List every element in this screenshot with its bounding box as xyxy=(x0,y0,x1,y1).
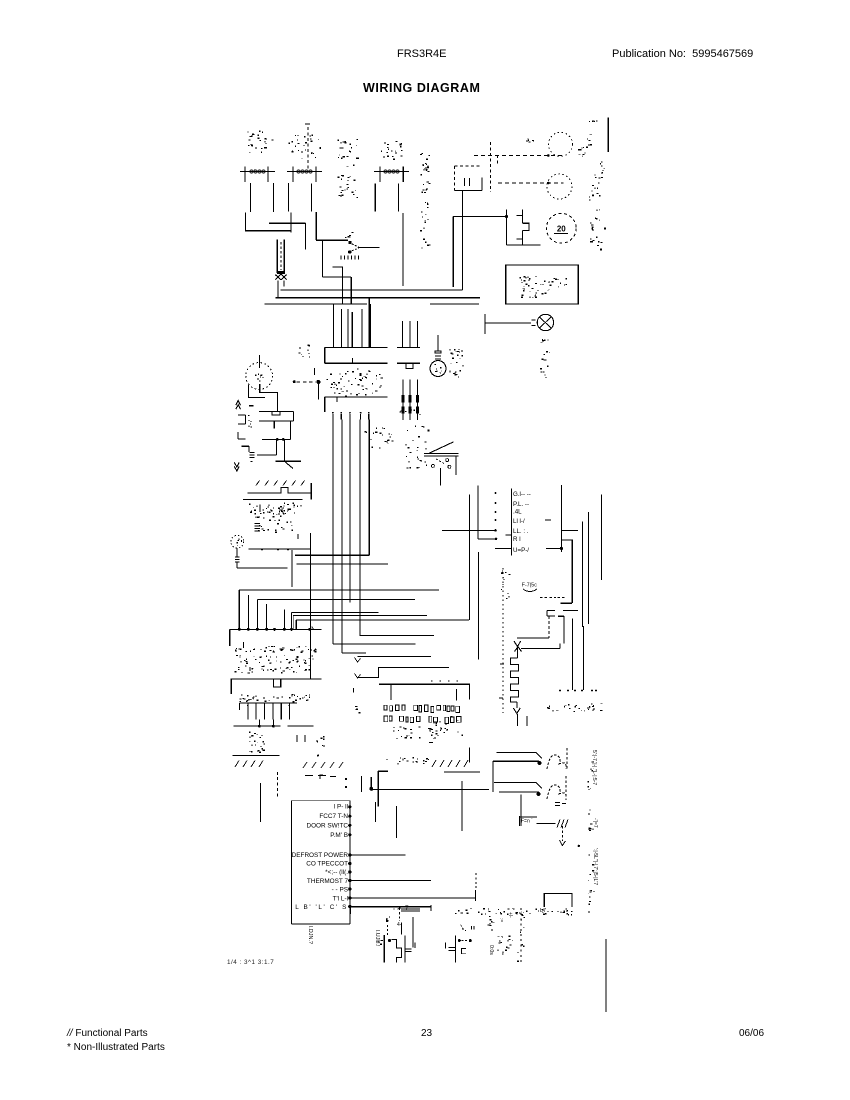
connector P2 dashed lead xyxy=(305,123,310,125)
header publication number xyxy=(612,48,753,60)
wire xyxy=(277,281,279,298)
wire xyxy=(461,781,463,831)
wire verticals right xyxy=(571,618,573,690)
svg-text:L7: L7 xyxy=(540,908,546,914)
svg-text:+l-: +l- xyxy=(507,912,513,918)
wire xyxy=(520,795,522,826)
wire bus xyxy=(332,419,334,644)
footer date xyxy=(739,1028,764,1039)
dotted sensor line xyxy=(502,568,504,713)
wire xyxy=(232,754,279,756)
wire xyxy=(559,643,561,648)
wire to right xyxy=(371,788,489,790)
terminal strip TB1 xyxy=(230,628,322,630)
lamp L1 dotted circle xyxy=(549,132,573,156)
adc bracket xyxy=(248,488,312,493)
light switch tick xyxy=(484,314,486,334)
riser xyxy=(238,590,240,629)
dashed wire to lamp 2 xyxy=(498,182,564,184)
relay contact block xyxy=(560,485,562,552)
connector P3 xyxy=(374,171,409,173)
svg-text:l P- ll: l P- ll xyxy=(334,804,348,811)
wire vertical bus xyxy=(402,213,404,286)
wire xyxy=(477,486,479,539)
noise marks right xyxy=(598,220,601,221)
wire xyxy=(265,303,367,305)
wire right edge xyxy=(607,118,609,152)
connector P1 xyxy=(240,171,275,173)
svg-text:FCC7 T-N: FCC7 T-N xyxy=(319,813,348,820)
wire bus xyxy=(368,298,370,348)
damper door xyxy=(429,442,453,453)
compressor info box xyxy=(506,265,578,304)
relay K2 coil xyxy=(494,781,536,783)
wire xyxy=(507,244,541,246)
dashes xyxy=(305,775,313,777)
rotated harness text noise xyxy=(382,427,383,430)
connector P2 label noise xyxy=(311,153,313,154)
wire xyxy=(283,281,285,287)
svg-text:T'l L-l: T'l L-l xyxy=(333,896,348,903)
wire xyxy=(442,529,495,531)
svg-text:U=P-/: U=P-/ xyxy=(513,547,529,554)
connector P1 label noise xyxy=(250,143,251,146)
control board edge xyxy=(511,489,513,556)
board connector J2 xyxy=(325,396,388,398)
defrost heater zigzag xyxy=(510,658,518,702)
wire D xyxy=(239,589,439,591)
svg-text:':|-5L''|-|.7':|5-|L'7: ':|-5L''|-|.7':|5-|L'7 xyxy=(592,848,598,885)
wire elbow xyxy=(315,212,317,240)
svg-text:L B' 'L' C' S: L B' 'L' C' S xyxy=(295,904,348,911)
diagonal label noise xyxy=(235,761,239,768)
bulb label noise xyxy=(461,355,463,357)
flow chevrons up xyxy=(236,401,241,406)
svg-text:DEFROST POWER: DEFROST POWER xyxy=(292,852,349,859)
wire xyxy=(259,783,261,822)
wire pair xyxy=(360,776,362,792)
svg-text:l.UJltl.!: l.UJltl.! xyxy=(374,930,380,947)
bracket contact xyxy=(238,414,246,416)
riser wire xyxy=(468,494,470,620)
footer functional parts note xyxy=(67,1028,148,1039)
wire bus xyxy=(368,419,370,555)
riser xyxy=(266,604,268,629)
arrow down xyxy=(513,708,520,714)
svg-text:5':|-7.'|-|.''L-|:5-7: 5':|-7.'|-|.''L-|:5-7 xyxy=(591,750,597,785)
compressor relay vertical xyxy=(506,209,508,245)
wire from door switch xyxy=(462,190,464,290)
wire xyxy=(269,222,305,224)
svg-text:LL. : .: LL. : . xyxy=(513,528,529,535)
wire xyxy=(350,906,431,908)
header model number xyxy=(397,48,447,60)
strip TB2 label noise xyxy=(305,695,307,696)
wire right bottom xyxy=(605,939,607,1012)
wire xyxy=(430,303,479,305)
board terminal dots xyxy=(348,805,351,808)
bracket contact xyxy=(237,432,239,439)
wire xyxy=(377,771,379,806)
hatch marks xyxy=(557,820,560,828)
switch blade xyxy=(283,439,285,461)
board dots xyxy=(495,492,497,494)
harness label text block xyxy=(384,705,461,724)
staircase wire xyxy=(357,667,449,677)
wire xyxy=(477,552,479,660)
dashed sensor wire xyxy=(293,380,296,383)
wire crossing junction xyxy=(290,213,292,233)
right harness label noise column xyxy=(428,244,430,247)
wire pair to right xyxy=(401,908,420,910)
wire dash xyxy=(288,725,314,727)
connector P2 wire xyxy=(311,184,313,212)
connector P1 wire xyxy=(272,183,274,212)
wire xyxy=(452,217,454,288)
freezer lamp dashed circle xyxy=(246,363,273,390)
svg-text:CO TPECCOT: CO TPECCOT xyxy=(306,861,348,868)
icemaker fill box xyxy=(544,893,572,907)
line fuse body xyxy=(276,240,278,273)
svg-text:0:0s: 0:0s xyxy=(488,945,494,955)
connector J2 pins xyxy=(332,414,334,419)
wire elbow from P1 xyxy=(245,212,291,230)
wire L1 xyxy=(291,612,378,614)
riser xyxy=(256,600,258,630)
defrost thermostat contacts xyxy=(348,241,351,244)
connector P3 label noise xyxy=(400,143,403,145)
wire tick xyxy=(273,421,275,429)
wire L2 xyxy=(293,614,427,616)
plug prong arrows xyxy=(275,274,281,279)
dashed arrow xyxy=(561,826,563,841)
wire xyxy=(276,439,278,455)
wire defrost power xyxy=(350,854,406,856)
riser xyxy=(247,595,249,629)
wire L3 xyxy=(296,619,469,621)
arrow xyxy=(355,658,361,663)
wire stem xyxy=(259,355,261,368)
wire xyxy=(296,563,387,565)
wire xyxy=(291,550,293,587)
connector P3 wire xyxy=(397,184,399,212)
connector J3 right xyxy=(397,347,420,349)
board connector J1 xyxy=(325,347,388,349)
diagonal noise xyxy=(432,760,436,767)
overload protector xyxy=(521,210,523,224)
svg-text:-'|=7: -'|=7 xyxy=(592,818,598,828)
footer non-illustrated parts note xyxy=(67,1042,165,1053)
heater element dashes xyxy=(250,452,255,454)
dashed wire to lamp 1 xyxy=(474,155,563,157)
lamp wire xyxy=(260,384,278,411)
svg-text::=: := xyxy=(498,918,504,922)
supply wire B xyxy=(275,297,480,299)
svg-text:THERMOST 7: THERMOST 7 xyxy=(307,878,349,885)
component label noise TFR xyxy=(357,158,359,160)
connector marks xyxy=(546,611,548,617)
staircase wires xyxy=(360,605,434,635)
wire xyxy=(468,748,470,763)
crisper lamp dotted xyxy=(231,535,244,548)
relay K1 coil xyxy=(497,751,537,753)
svg-text:l.DJN.?: l.DJN.? xyxy=(307,926,313,944)
wire xyxy=(521,648,560,650)
main control board xyxy=(292,800,350,802)
wire bus xyxy=(341,419,343,653)
svg-text:DOOR SW!TC: DOOR SW!TC xyxy=(306,823,348,830)
wire xyxy=(349,908,351,914)
wire ticks xyxy=(390,684,392,700)
wire xyxy=(262,438,291,440)
wire xyxy=(444,771,480,773)
supply wire A xyxy=(281,289,463,291)
lamp labels noise xyxy=(528,141,530,144)
dashed vertical xyxy=(277,772,279,798)
wire xyxy=(495,547,512,549)
riser xyxy=(283,610,285,630)
footer page number xyxy=(421,1028,432,1039)
wire xyxy=(374,802,376,822)
svg-text:.4L: .4L xyxy=(513,509,522,516)
wire bus xyxy=(349,419,351,602)
heater feed xyxy=(548,616,550,638)
run capacitor dashed circle 20 xyxy=(546,213,576,243)
double riser pair xyxy=(290,613,292,630)
svg-text:P.M' B: P.M' B xyxy=(330,832,348,839)
label noise rows xyxy=(249,737,250,738)
bracket contact xyxy=(242,445,250,447)
wire bus xyxy=(359,419,361,635)
connector J4 xyxy=(239,702,297,704)
terminal strip TB2 xyxy=(230,678,321,680)
wire to compressor relay xyxy=(453,216,506,218)
connector P2 wire xyxy=(287,183,289,212)
svg-text:- - PS: - - PS xyxy=(332,887,348,894)
door switch dashed leads xyxy=(427,167,428,169)
wire elbow xyxy=(332,267,342,304)
switch S1 xyxy=(389,917,390,918)
wire to lamp xyxy=(485,322,531,324)
svg-text:P.L. --: P.L. -- xyxy=(513,501,529,508)
lamp wire xyxy=(237,567,287,569)
lamp L3 xyxy=(532,319,536,321)
label noise row xyxy=(556,710,558,713)
strip TB1 label noise xyxy=(254,649,255,650)
svg-text:Ll l-/: Ll l-/ xyxy=(513,518,525,525)
connector P2 xyxy=(287,171,322,173)
page title xyxy=(363,81,480,95)
freezer light bulb xyxy=(437,335,439,351)
long center bus xyxy=(310,533,312,679)
switch S2 xyxy=(404,935,406,962)
switch S3 xyxy=(445,943,447,949)
heater wires striped xyxy=(402,379,404,420)
door switch box II xyxy=(455,165,482,167)
svg-text:G.l-- --: G.l-- -- xyxy=(513,491,531,498)
wire xyxy=(234,725,281,727)
lamp wire xyxy=(248,385,264,397)
dots row xyxy=(559,690,561,692)
starter relay box xyxy=(259,410,293,412)
arrow down xyxy=(514,641,521,647)
wire xyxy=(396,806,398,838)
evaporator fan lead wires xyxy=(333,304,335,348)
wire thermostat xyxy=(350,880,431,882)
wire xyxy=(316,239,348,241)
wire label noise diagonal xyxy=(256,481,260,486)
wire bus xyxy=(588,512,590,624)
svg-text:F-7(5c: F-7(5c xyxy=(522,583,537,589)
svg-text:20: 20 xyxy=(557,225,566,234)
lamp label noise xyxy=(256,517,257,518)
wire xyxy=(350,897,476,899)
connector P3 wire xyxy=(374,184,376,212)
wire from thermostat xyxy=(359,247,379,249)
svg-text:*<;-- (ll(.: *<;-- (ll(. xyxy=(325,869,348,876)
wire xyxy=(321,240,323,277)
diagonal label noise 2 xyxy=(303,762,307,768)
wire xyxy=(517,714,519,726)
wire E xyxy=(257,599,415,601)
thermostat label ticks xyxy=(340,256,342,260)
dotted segment xyxy=(431,680,459,682)
wire bus xyxy=(600,495,602,581)
wire xyxy=(290,421,292,440)
lamp L2 dotted circle xyxy=(547,174,572,199)
wire to relays xyxy=(379,684,469,699)
fan shroud box xyxy=(518,816,520,826)
wire bus xyxy=(582,522,584,627)
svg-text:F=n `: F=n ` xyxy=(521,819,533,825)
wire xyxy=(295,554,369,556)
connector J1 pin label noise xyxy=(345,396,347,398)
noise marks xyxy=(591,226,593,229)
svg-text:R l: R l xyxy=(513,536,521,543)
svg-text:1/4 : 3^1 3:1.7: 1/4 : 3^1 3:1.7 xyxy=(227,959,274,966)
wire xyxy=(249,548,311,550)
flow chevrons down xyxy=(234,462,239,467)
connector P1 wire xyxy=(250,183,252,212)
relay link wire xyxy=(492,761,494,792)
